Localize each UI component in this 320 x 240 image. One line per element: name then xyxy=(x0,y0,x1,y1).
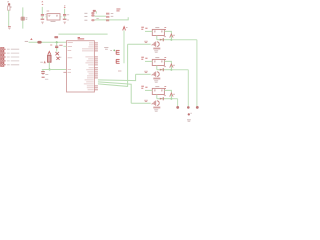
label R3 xyxy=(141,27,147,29)
resistor R1 (vertical box) xyxy=(8,6,10,10)
gate wire 3 xyxy=(131,102,151,104)
gate label xyxy=(144,100,148,101)
net flag row3 xyxy=(106,19,109,21)
X1 pin label texts xyxy=(7,49,19,65)
net label arrows XTAL xyxy=(41,1,43,2)
junction node xyxy=(49,69,51,71)
reset net text left xyxy=(25,40,28,42)
out wire to right rail xyxy=(171,39,197,41)
junction node xyxy=(56,41,58,43)
gnd cross symbol right of R2 xyxy=(56,57,59,60)
MOSFET T2 xyxy=(154,72,159,77)
wire rail 2 down to pad xyxy=(187,70,189,106)
wire V1 vertical VCC xyxy=(123,30,125,63)
gate label xyxy=(144,71,148,72)
wire rail 1 down to pad xyxy=(177,99,179,106)
wire stub above JP1 xyxy=(95,11,97,13)
text r2 small xyxy=(104,47,112,50)
connector box X4 xyxy=(152,88,164,94)
flag texts xyxy=(111,14,114,17)
box bottom stub xyxy=(156,36,158,40)
ground bar C4 xyxy=(42,76,45,78)
connector E2 pin stubs xyxy=(116,59,119,63)
corner marks red xyxy=(164,58,166,60)
pin marks inside xyxy=(154,61,163,62)
pin marks inside xyxy=(154,90,163,91)
supply symbol over R2 xyxy=(48,51,51,54)
right pin names inside xyxy=(82,43,94,90)
wire PWM2 xyxy=(98,82,131,103)
diode D2 on reset wire xyxy=(37,41,41,44)
value label R1 xyxy=(10,6,11,9)
pad 1 xyxy=(176,106,179,109)
gate wire 2 xyxy=(136,73,151,75)
left stub xyxy=(145,89,152,91)
drain wire xyxy=(157,98,172,100)
wire xyxy=(64,9,66,15)
supply symbol VCC over V1 xyxy=(123,27,126,31)
pin marks inside Q1 xyxy=(48,15,58,16)
out wire to mid rail xyxy=(171,69,188,71)
C2 value text xyxy=(67,14,69,16)
left pin stub 2 xyxy=(63,45,66,47)
junction corner xyxy=(170,98,172,100)
VCC label blob on wire W1 xyxy=(54,36,58,38)
pad 2 xyxy=(187,106,190,109)
gate arrow xyxy=(151,43,154,45)
ground cross C3 xyxy=(55,52,59,55)
MOSFET T3 xyxy=(154,101,159,106)
out wire to rail1 xyxy=(171,98,177,100)
wire xyxy=(64,16,66,18)
gate wire 1 xyxy=(128,43,151,45)
connector E1 pin stubs xyxy=(116,50,119,54)
wire xyxy=(41,7,43,14)
C3 label xyxy=(50,44,52,46)
net text PB xyxy=(118,70,121,72)
C2 gnd text xyxy=(67,19,69,21)
supply symbol +12V xyxy=(170,93,173,97)
wire R2 down xyxy=(48,62,50,69)
right pin stubs (unconnected) xyxy=(94,43,98,90)
net flag row1 xyxy=(106,13,109,15)
JP1 pad 1 xyxy=(91,12,94,14)
wire PWM1 xyxy=(98,74,136,80)
LED D5 on drain wire xyxy=(160,98,163,100)
left stub xyxy=(145,30,152,32)
drain wire xyxy=(157,69,172,71)
JP1 pad 2 xyxy=(91,14,94,16)
LED label xyxy=(26,18,28,20)
LED D1 xyxy=(21,17,25,21)
wire xyxy=(41,16,43,18)
ground bar xyxy=(153,107,160,109)
junction node ISP xyxy=(113,50,115,52)
wire xyxy=(56,48,58,52)
wire W1 (AVCC net) xyxy=(58,33,107,35)
IC1 label xyxy=(78,38,85,39)
T3 text xyxy=(154,110,158,111)
capacitor C2 plates xyxy=(63,14,66,15)
label R4 xyxy=(141,57,147,59)
ground triangle C1 xyxy=(41,22,44,25)
wire JP1.2 to flag2 xyxy=(95,15,106,17)
IC1 ATmega8 box xyxy=(67,41,95,92)
crystal Q1 box xyxy=(47,14,60,20)
corner marks red xyxy=(164,28,166,30)
left connector X1 pads xyxy=(1,48,4,67)
left stub xyxy=(145,60,152,62)
wire xyxy=(8,10,10,26)
C4 value xyxy=(45,74,48,76)
connector box X3 xyxy=(152,59,164,65)
ground bar C2 xyxy=(63,18,67,20)
pad 4 text xyxy=(190,112,192,114)
jumper JP1 label xyxy=(93,10,96,12)
pad 4 small xyxy=(188,113,190,115)
crystal Q1 label xyxy=(47,10,50,12)
wire into IC VCC xyxy=(42,69,67,71)
connector box X2 xyxy=(152,29,164,35)
capacitor C3 plates xyxy=(55,46,58,47)
JP2 label text xyxy=(116,9,120,11)
MOSFET T1 xyxy=(154,42,159,47)
C1 value text xyxy=(45,14,47,16)
left pin names inside xyxy=(68,43,73,73)
LED D4 on drain wire xyxy=(160,69,163,71)
junction node xyxy=(170,69,172,71)
wire box right to corner xyxy=(164,31,171,39)
capacitor C1 plates xyxy=(41,14,44,15)
box bottom stub xyxy=(156,95,158,99)
Q1 side pin stubs xyxy=(46,16,62,18)
gate label xyxy=(144,41,148,42)
value text under Q1 xyxy=(51,20,56,22)
ground bar C1 xyxy=(41,18,45,20)
box bottom stub xyxy=(156,66,158,70)
ground triangle xyxy=(8,28,11,30)
box text xyxy=(155,27,159,29)
net flag row2 xyxy=(106,16,109,18)
net label arrow RESET xyxy=(30,38,32,40)
resistor R2 (vertical) xyxy=(48,55,51,62)
supply symbol +12V xyxy=(170,34,173,38)
wire RESET xyxy=(29,41,67,43)
pad 3 xyxy=(196,106,199,109)
junction node xyxy=(170,39,172,41)
LED D3 on drain wire xyxy=(160,39,163,41)
gate arrow xyxy=(151,102,154,104)
supply label marks above R1 xyxy=(8,1,9,4)
supply symbol +12V xyxy=(170,64,173,68)
capacitor C4 (polarized) xyxy=(42,70,44,72)
text near wire start xyxy=(96,18,98,20)
ground bar xyxy=(153,48,160,50)
XTAL net label xyxy=(59,44,62,46)
wire down xyxy=(56,42,58,46)
net label right cap xyxy=(64,6,66,8)
T2 text xyxy=(154,81,158,82)
box text xyxy=(155,57,159,59)
gnd text xyxy=(59,56,62,58)
drain wire xyxy=(157,39,172,41)
corner marks red xyxy=(164,87,166,89)
net arrow + text left xyxy=(44,61,46,64)
JP1 pin texts left xyxy=(84,13,87,20)
label R5 xyxy=(141,86,147,88)
X1 pin stubs xyxy=(4,49,6,65)
pin marks inside xyxy=(154,31,163,32)
wire box right to corner xyxy=(164,61,171,69)
wire JP1.3 long xyxy=(95,17,129,20)
ground triangle C2 xyxy=(63,22,66,25)
wire PWM3 xyxy=(98,44,128,86)
diode/arrow blob group1 xyxy=(8,3,10,5)
wire rail 3 down to pad xyxy=(196,40,198,106)
left pin stub lower xyxy=(63,71,66,73)
T1 text xyxy=(154,51,158,52)
box text xyxy=(155,86,159,88)
wire box right to corner xyxy=(164,90,171,98)
gate arrow xyxy=(151,73,154,75)
ground bar xyxy=(153,78,160,80)
gnd text C4 xyxy=(45,78,48,80)
JP1 pad 3 xyxy=(91,19,94,21)
X2 label text xyxy=(187,120,191,121)
wire LED column xyxy=(22,7,24,28)
ground bar xyxy=(8,26,11,28)
